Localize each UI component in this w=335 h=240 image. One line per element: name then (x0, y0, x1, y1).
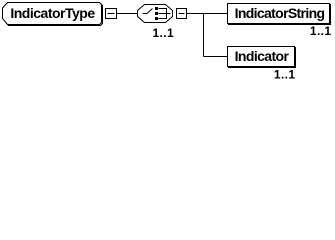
svg-text:1..1: 1..1 (310, 24, 332, 38)
cardinality label 1..1 under IndicatorString (310, 24, 332, 38)
svg-text:1..1: 1..1 (274, 68, 296, 82)
wire branch to Indicator (204, 56, 228, 58)
wire from choice toggle to IndicatorString (187, 13, 228, 15)
svg-text:Indicator: Indicator (235, 48, 290, 64)
cardinality label 1..1 under choice (152, 26, 174, 40)
wire vertical branch (203, 14, 205, 57)
element box Indicator (228, 47, 296, 68)
element box IndicatorType (3, 3, 103, 26)
choice icon switch lever (143, 9, 153, 14)
element box IndicatorString (228, 4, 331, 25)
choice icon contact squares (155, 7, 158, 20)
wire from IndicatorType toggle to choice compositor (117, 13, 138, 15)
svg-text:IndicatorString: IndicatorString (235, 5, 325, 21)
choice compositor octagon (138, 5, 173, 23)
choice icon output bracket (159, 8, 171, 19)
expand toggle (minus) on IndicatorType (106, 9, 117, 19)
expand toggle (minus) after choice (177, 9, 187, 19)
svg-text:IndicatorType: IndicatorType (10, 5, 95, 21)
svg-text:1..1: 1..1 (152, 26, 174, 40)
cardinality label 1..1 under Indicator (274, 68, 296, 82)
